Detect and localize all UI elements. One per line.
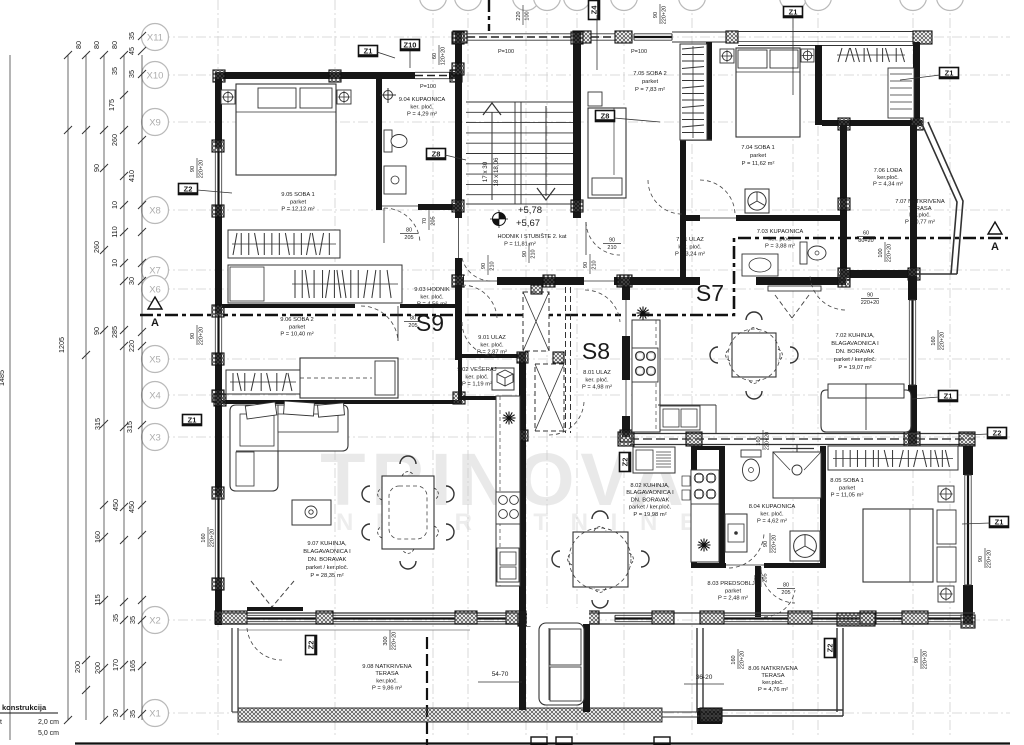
svg-text:200: 200: [73, 661, 82, 673]
svg-text:P = 2,48 m²: P = 2,48 m²: [718, 596, 748, 602]
svg-text:90: 90: [653, 12, 659, 18]
svg-text:Z2: Z2: [826, 644, 835, 653]
star 8.02: [698, 544, 711, 546]
svg-text:konstrukcija: konstrukcija: [2, 703, 47, 712]
svg-text:260: 260: [110, 134, 119, 146]
Z labels: [401, 40, 420, 51]
svg-text:P = 3,24 m²: P = 3,24 m²: [675, 252, 705, 258]
svg-text:220: 220: [516, 11, 522, 20]
svg-text:9.04 KUPAONICA: 9.04 KUPAONICA: [399, 97, 446, 103]
svg-text:10: 10: [110, 201, 119, 209]
section marker A right: [988, 222, 1002, 234]
svg-text:450: 450: [127, 501, 136, 513]
svg-text:DN. BORAVAK: DN. BORAVAK: [836, 349, 875, 355]
svg-text:205: 205: [781, 590, 790, 596]
sink 9.07: [497, 548, 519, 582]
svg-text:+5,78: +5,78: [518, 205, 542, 216]
svg-text:P = 2,87 m²: P = 2,87 m²: [477, 350, 507, 356]
wardrobe band 8.05: [828, 446, 958, 470]
toilet 8.04: [741, 450, 761, 457]
svg-text:Z1: Z1: [188, 416, 197, 425]
svg-text:35: 35: [110, 67, 119, 75]
svg-text:220+20: 220+20: [765, 432, 771, 451]
svg-text:205: 205: [404, 235, 413, 241]
svg-text:160: 160: [93, 531, 102, 543]
svg-text:X7: X7: [149, 266, 161, 277]
door opening 9.06: [355, 303, 400, 309]
svg-text:A: A: [991, 241, 999, 253]
section line vertical top: [488, 0, 490, 31]
lamps 7.04: [720, 49, 734, 63]
window left wall lower 160/220+20: [214, 497, 223, 578]
svg-text:parket / ker.ploč.: parket / ker.ploč.: [306, 565, 349, 571]
svg-text:X11: X11: [147, 33, 163, 44]
svg-text:18 x 18,06: 18 x 18,06: [493, 157, 500, 186]
svg-text:220+20: 220+20: [772, 535, 778, 554]
stair down arrow: [545, 106, 547, 196]
svg-text:ker. ploč.: ker. ploč.: [465, 374, 489, 380]
svg-text:Z8: Z8: [432, 150, 441, 159]
wall: LODJA south y270: [840, 270, 917, 278]
wall: 8.04/8.05 divider x820: [820, 446, 826, 565]
svg-text:35: 35: [127, 32, 136, 40]
svg-text:ker. ploč.: ker. ploč.: [678, 244, 702, 250]
svg-text:7.01 ULAZ: 7.01 ULAZ: [676, 237, 704, 243]
svg-text:80: 80: [406, 228, 412, 234]
svg-text:Z4: Z4: [590, 5, 599, 15]
stairwell treads: [466, 101, 573, 103]
svg-text:10: 10: [110, 259, 119, 267]
star symbol section: [637, 312, 650, 314]
svg-text:7.04 SOBA 1: 7.04 SOBA 1: [741, 145, 775, 151]
svg-text:P = 11,81 m²: P = 11,81 m²: [504, 242, 536, 248]
svg-text:7.05 SOBA 2: 7.05 SOBA 2: [633, 71, 667, 77]
door arc 8.04: [729, 533, 764, 568]
bed 7.04: [736, 48, 800, 137]
svg-text:ker. ploč.: ker. ploč.: [480, 342, 504, 348]
stove 9.07: [496, 492, 520, 524]
svg-text:X10: X10: [147, 71, 164, 82]
stair up arrow: [491, 112, 493, 200]
svg-text:90: 90: [92, 164, 101, 172]
svg-text:8.03 PREDSOBLJE: 8.03 PREDSOBLJE: [707, 581, 758, 587]
wall: 8.04 south / 8.03 north y563: [691, 563, 826, 568]
section boundary S8 dashed: [426, 637, 428, 745]
svg-text:160: 160: [731, 655, 737, 664]
svg-text:BLAGAVAONICA I: BLAGAVAONICA I: [831, 341, 879, 347]
wall: right outer wall x965 lower: [963, 446, 973, 624]
stove 7.02: [632, 348, 658, 382]
wall: S9 top wall: [215, 72, 462, 79]
window left wall upper 90/220+20: [214, 148, 223, 205]
closet shelves top right: [888, 68, 914, 118]
svg-text:P = 11,62 m²: P = 11,62 m²: [742, 161, 775, 167]
sink 7.03: [742, 254, 778, 276]
svg-text:parket / ker.ploč.: parket / ker.ploč.: [629, 505, 672, 511]
svg-text:36-20: 36-20: [696, 674, 713, 681]
svg-text:ker. ploč.: ker. ploč.: [420, 294, 444, 300]
living bay 8.02 walls: [527, 608, 589, 626]
svg-text:450: 450: [111, 499, 120, 511]
svg-text:TERASA: TERASA: [761, 673, 784, 679]
door arc bottom 8.03 to terrace: [764, 590, 795, 617]
svg-text:9.03 HODNIK: 9.03 HODNIK: [414, 287, 450, 293]
svg-text:parket / ker.ploč.: parket / ker.ploč.: [834, 357, 877, 363]
svg-text:X8: X8: [149, 206, 161, 217]
counter L corner 7.02: [658, 404, 716, 406]
svg-text:Z2: Z2: [307, 641, 316, 650]
svg-text:TERASA: TERASA: [908, 206, 931, 212]
svg-text:80: 80: [783, 583, 789, 589]
wardrobe 9.05 upper: [228, 230, 340, 258]
section marker A left: [148, 297, 162, 309]
svg-text:160: 160: [201, 533, 207, 542]
door arc 9.01: [462, 285, 497, 318]
svg-text:8.01 ULAZ: 8.01 ULAZ: [583, 370, 611, 376]
svg-text:ker. ploč.: ker. ploč.: [768, 236, 792, 242]
svg-text:90: 90: [190, 166, 196, 172]
svg-text:parket: parket: [290, 199, 307, 205]
wall: 9.04 bottom with door opening: [418, 204, 462, 210]
svg-text:X1: X1: [149, 709, 161, 720]
wall: divider 9.05/9.06: [222, 304, 455, 308]
star symbol 9.07: [503, 417, 516, 419]
door arc 7.01 north-east: [648, 180, 682, 214]
svg-text:220+20: 220+20: [940, 332, 946, 351]
wall: bathroom 7.03 north: [686, 215, 846, 221]
wall: 7.02 east x914: [908, 276, 917, 446]
svg-text:P = 7,83 m²: P = 7,83 m²: [635, 87, 665, 93]
svg-text:165: 165: [128, 660, 137, 672]
svg-text:315: 315: [125, 421, 134, 433]
svg-text:P=100: P=100: [631, 49, 647, 55]
toilet 7.03: [800, 242, 807, 264]
svg-text:ker.ploč.: ker.ploč.: [909, 213, 931, 219]
svg-text:120+20: 120+20: [441, 47, 447, 66]
svg-text:35: 35: [111, 614, 120, 622]
stair center rails: [514, 102, 516, 204]
svg-text:220+20: 220+20: [861, 300, 880, 306]
svg-text:A: A: [151, 317, 159, 329]
door opening 8.03-8.04: [726, 562, 764, 569]
svg-text:Z1: Z1: [944, 392, 953, 401]
wall: closet bottom y120: [822, 120, 922, 126]
svg-text:P = 4,34 m²: P = 4,34 m²: [873, 182, 903, 188]
window in S9 top wall near stair: [415, 71, 449, 80]
svg-text:90: 90: [763, 541, 769, 547]
wall: band y433 between 7.02 and 8.05: [630, 433, 975, 435]
svg-text:P = 0,77 m²: P = 0,77 m²: [905, 219, 935, 225]
svg-text:220+20: 220+20: [887, 244, 893, 263]
svg-text:35: 35: [128, 710, 137, 718]
bed 9.06: [300, 358, 398, 398]
svg-text:220+20: 220+20: [987, 550, 993, 569]
svg-text:parket: parket: [289, 324, 306, 330]
bed 7.05: [588, 108, 626, 198]
dining table 7.02: [732, 333, 776, 377]
svg-text:7.03 KUPAONICA: 7.03 KUPAONICA: [757, 229, 804, 235]
svg-text:P=100: P=100: [498, 49, 514, 55]
svg-text:205: 205: [431, 216, 437, 225]
svg-text:Z8: Z8: [601, 112, 610, 121]
svg-text:90: 90: [583, 262, 589, 268]
svg-text:210: 210: [490, 261, 496, 270]
shower 8.04: [773, 452, 821, 498]
svg-text:t: t: [0, 719, 2, 726]
svg-text:P = 28,35 m²: P = 28,35 m²: [310, 573, 343, 579]
window/balcony door 7.02 east: [907, 300, 918, 385]
svg-text:P = 11,05 m²: P = 11,05 m²: [831, 493, 864, 499]
wall: 8.05 west x755 partial: [755, 566, 761, 617]
svg-text:5,0 cm: 5,0 cm: [38, 730, 59, 737]
top grid bubbles (partial): [420, 0, 447, 11]
svg-text:DN. BORAVAK: DN. BORAVAK: [308, 557, 347, 563]
svg-text:220+20: 220+20: [210, 529, 216, 548]
svg-text:+5,67: +5,67: [516, 218, 540, 229]
wall: stair east wall: [573, 31, 581, 218]
wardrobe strip 7.05: [680, 44, 707, 140]
svg-text:220+20: 220+20: [392, 632, 398, 651]
wall: 8.04 west x719: [719, 446, 725, 565]
wall: veseraj 9.02 box: [458, 354, 520, 358]
dimension lines left: [9, 55, 11, 740]
door openings in spine wall: [621, 300, 631, 336]
svg-text:8.05 SOBA 1: 8.05 SOBA 1: [830, 478, 864, 484]
washer 9.02 cube icon: [492, 368, 514, 390]
door arc 7.04: [700, 180, 735, 214]
svg-text:60: 60: [863, 231, 869, 237]
svg-text:115: 115: [93, 594, 102, 605]
wardrobe 9.06: [226, 370, 300, 394]
dining table 8.02: [573, 532, 628, 587]
svg-text:210: 210: [531, 249, 537, 258]
svg-text:Z1: Z1: [789, 8, 798, 17]
svg-text:P = 12,12 m²: P = 12,12 m²: [281, 207, 314, 213]
svg-text:Z2: Z2: [993, 429, 1002, 438]
svg-text:P = 4,56 m²: P = 4,56 m²: [417, 302, 447, 308]
wall: 9.06 bottom: [222, 400, 462, 404]
wardrobe 9.05 lower: [228, 265, 402, 303]
terrace 9.08 inner sill lines: [238, 629, 470, 631]
dining table 9.07: [382, 476, 434, 549]
svg-text:ker. ploč.: ker. ploč.: [760, 511, 784, 517]
toilet 9.04: [384, 130, 392, 152]
svg-text:54-70: 54-70: [492, 671, 509, 678]
terrace 8.06 outline: [696, 628, 698, 712]
wall: LODJA west x840: [840, 125, 847, 276]
closet rail top right: [837, 54, 905, 56]
svg-text:P = 19,98 m²: P = 19,98 m²: [633, 512, 666, 518]
door arc 9.04: [384, 208, 420, 243]
svg-text:80: 80: [74, 41, 83, 49]
wall: 7.05/7.04 divider upper: [706, 42, 712, 140]
door arc 9.03 south: [462, 322, 496, 356]
sink 8.02 top: [633, 447, 675, 473]
svg-text:160: 160: [756, 436, 762, 445]
svg-text:35: 35: [127, 70, 136, 78]
window segments bottom band: [247, 614, 316, 616]
svg-text:175: 175: [107, 99, 116, 111]
Z leader lines: [445, 155, 466, 160]
door arc 8.05 entry: [761, 570, 795, 603]
svg-text:Z1: Z1: [995, 518, 1004, 527]
svg-text:S7: S7: [696, 280, 724, 306]
bed 9.05: [236, 84, 336, 175]
couch 8.02: [539, 623, 584, 705]
svg-text:P = 3,88 m²: P = 3,88 m²: [765, 244, 795, 250]
svg-text:160: 160: [931, 336, 937, 345]
svg-text:P = 1,19 m²: P = 1,19 m²: [462, 382, 492, 388]
svg-text:P=100: P=100: [420, 84, 436, 90]
svg-text:90: 90: [914, 657, 920, 663]
svg-text:1205: 1205: [57, 337, 66, 353]
sink 7.02: [660, 406, 700, 430]
svg-text:X6: X6: [149, 285, 161, 296]
wall: central corridor spine x623: [622, 285, 630, 437]
svg-text:X2: X2: [149, 616, 161, 627]
svg-text:ker.ploč.: ker.ploč.: [877, 175, 899, 181]
svg-text:DN. BORAVAK: DN. BORAVAK: [631, 497, 670, 503]
svg-text:9.07 KUHINJA,: 9.07 KUHINJA,: [307, 541, 347, 547]
wall: corridor 9.01/9.02 east wall: [519, 352, 526, 611]
kitchen counter 9.07: [496, 396, 520, 586]
wall: stair west wall: [455, 31, 462, 285]
wall: top band y31-42: [453, 31, 467, 43]
stove 8.02: [691, 470, 719, 504]
svg-text:80: 80: [410, 316, 416, 322]
svg-text:HODNIK I STUBIŠTE 2. kat: HODNIK I STUBIŠTE 2. kat: [497, 233, 566, 240]
svg-text:9.08 NATKRIVENA: 9.08 NATKRIVENA: [362, 664, 412, 670]
svg-text:210: 210: [592, 260, 598, 269]
svg-text:410: 410: [127, 170, 136, 182]
svg-text:9.05 SOBA 1: 9.05 SOBA 1: [281, 192, 315, 198]
terrace 9.08 outline: [231, 628, 233, 712]
svg-text:220: 220: [127, 340, 136, 352]
svg-text:90: 90: [92, 327, 101, 335]
svg-text:90: 90: [978, 556, 984, 562]
washer 8.04: [790, 531, 820, 561]
sofa 9.07: [230, 405, 348, 491]
level marker circle: [493, 213, 506, 226]
sink 9.04: [384, 166, 406, 194]
svg-text:8.04 KUPAONICA: 8.04 KUPAONICA: [749, 504, 796, 510]
svg-text:30: 30: [111, 709, 120, 717]
svg-text:BLAGAVAONICA I: BLAGAVAONICA I: [303, 549, 351, 555]
wall: 9.03 east = stair wall continues down: [455, 285, 462, 360]
coffee table 9.07: [292, 500, 331, 525]
svg-text:7.07 NATKRIVENA: 7.07 NATKRIVENA: [895, 199, 945, 205]
svg-text:parket: parket: [725, 588, 742, 594]
svg-text:2,0 cm: 2,0 cm: [38, 719, 59, 726]
svg-text:Z10: Z10: [404, 41, 417, 50]
svg-text:X5: X5: [149, 355, 161, 366]
extractor dashed V 7.02: [775, 295, 792, 318]
grid axes: [217, 0, 219, 735]
svg-text:220+20: 220+20: [740, 651, 746, 670]
wall: right wall top unit x815: [815, 45, 822, 125]
svg-text:ker. ploč.: ker. ploč.: [585, 377, 609, 383]
svg-text:205: 205: [408, 323, 417, 329]
wall: 7.03 south / 7.02 north: [630, 277, 700, 285]
svg-text:parket: parket: [839, 485, 856, 491]
svg-text:260: 260: [92, 241, 101, 253]
bottom frame line: [75, 742, 1010, 744]
nightstand lamps 9.05: [221, 90, 235, 104]
wall: 7.05/7.01 divider lower: [680, 140, 686, 285]
window left wall mid 90/220+20: [214, 314, 223, 353]
svg-text:30: 30: [127, 277, 136, 285]
svg-text:TERASA: TERASA: [375, 671, 398, 677]
door arc terrace 9.07: [247, 628, 282, 660]
svg-text:parket: parket: [642, 79, 659, 85]
grid bubbles X1-X11: [142, 24, 169, 51]
door arc 7.01 west: [586, 222, 620, 255]
svg-text:90: 90: [609, 238, 615, 244]
svg-text:Z2: Z2: [184, 185, 193, 194]
svg-text:9.01 ULAZ: 9.01 ULAZ: [478, 335, 506, 341]
svg-text:7.06 LOĐA: 7.06 LOĐA: [874, 168, 903, 174]
svg-text:Z1: Z1: [945, 69, 954, 78]
svg-text:220+20: 220+20: [662, 6, 668, 25]
shelf 7.02 top: [768, 286, 821, 291]
svg-text:Z1: Z1: [364, 47, 373, 56]
wall dashed 8.01 west x565: [565, 287, 567, 433]
svg-text:X3: X3: [149, 433, 161, 444]
svg-text:70: 70: [422, 218, 428, 224]
svg-text:80: 80: [110, 41, 119, 49]
svg-text:100: 100: [525, 11, 531, 20]
svg-text:parket: parket: [750, 153, 767, 159]
nightstand 7.05: [588, 92, 602, 106]
kitchen counter 7.02: [632, 320, 660, 432]
svg-text:170: 170: [111, 659, 120, 671]
svg-text:P = 4,62 m²: P = 4,62 m²: [757, 519, 787, 525]
wall: stair south wall: [455, 277, 631, 285]
sofa 7.02: [821, 390, 911, 432]
svg-text:90: 90: [481, 263, 487, 269]
svg-text:80+20: 80+20: [858, 238, 873, 244]
svg-text:BLAGAVAONICA I: BLAGAVAONICA I: [626, 490, 674, 496]
svg-text:ker.ploč.: ker.ploč.: [762, 680, 784, 686]
rot dim labels: [422, 210, 437, 230]
svg-text:220+20: 220+20: [199, 327, 205, 346]
wall: 9.04/9.05 divider: [376, 79, 382, 210]
door opening in stair south wall: [464, 276, 497, 286]
svg-text:70: 70: [754, 575, 760, 581]
svg-text:80: 80: [92, 41, 101, 49]
shower symbol 9.04: [380, 94, 396, 96]
door arc 9.06: [361, 306, 398, 341]
svg-text:200: 200: [93, 662, 102, 674]
svg-text:S9: S9: [416, 310, 444, 336]
section line A-A: [140, 238, 1008, 315]
wall: 8.02/8.03 divider x691: [691, 446, 697, 568]
svg-text:P = 4,98 m²: P = 4,98 m²: [582, 385, 612, 391]
svg-text:Z2: Z2: [621, 458, 630, 467]
svg-text:205: 205: [763, 573, 769, 582]
svg-text:1485: 1485: [0, 370, 6, 386]
svg-text:P = 9,86 m²: P = 9,86 m²: [372, 686, 402, 692]
svg-text:60: 60: [432, 53, 438, 59]
vanity 8.04: [725, 514, 747, 552]
window right outer wall: [962, 475, 974, 585]
svg-text:7.02 KUHINJA,: 7.02 KUHINJA,: [835, 333, 875, 339]
svg-text:90: 90: [190, 333, 196, 339]
svg-text:45: 45: [127, 47, 136, 55]
shaft boxes with X: [523, 292, 549, 351]
bed 8.05: [863, 509, 933, 582]
wall: bottom band y611-624: [215, 612, 526, 614]
